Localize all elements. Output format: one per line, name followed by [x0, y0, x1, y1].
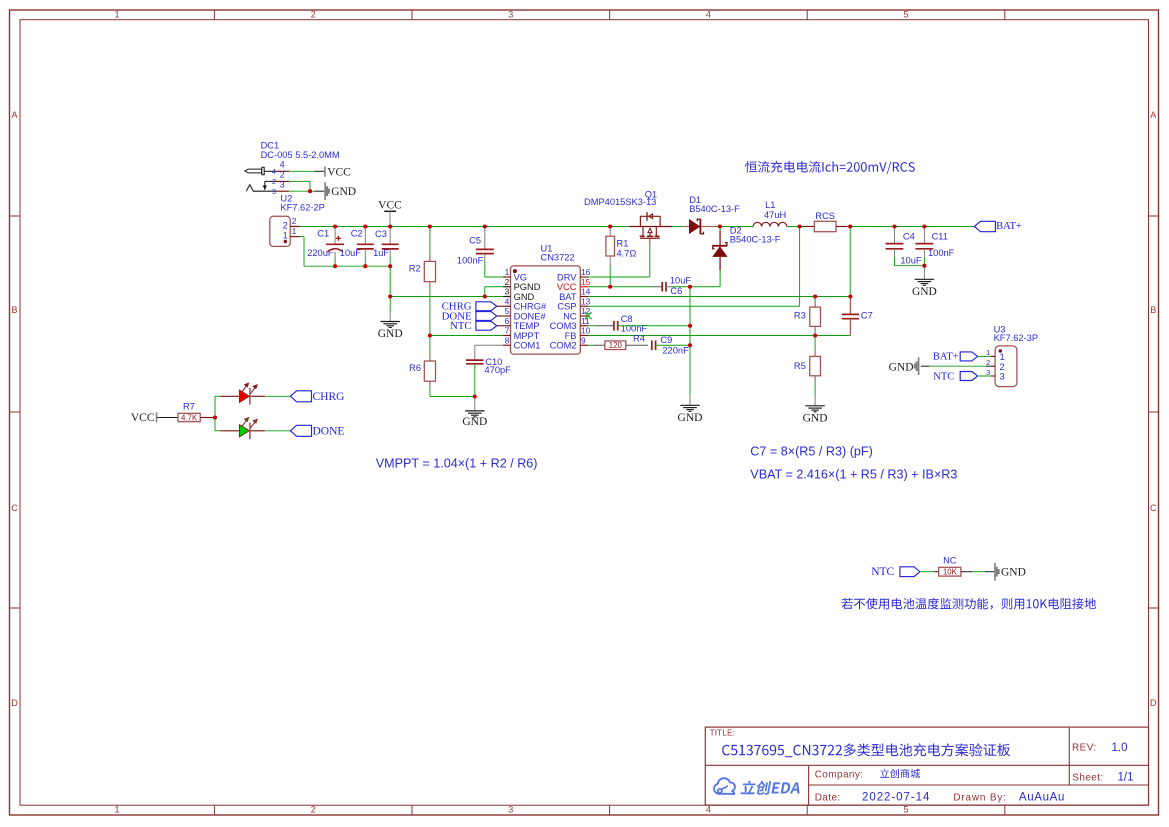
ground flag GND at NTC: [994, 563, 996, 581]
U2 pin 1 stub: [290, 236, 300, 238]
junction BAT-R3-C7: [848, 294, 852, 298]
svg-text:4: 4: [706, 9, 711, 19]
U1 pin 1 VG: [503, 276, 511, 278]
svg-text:VCC: VCC: [327, 166, 351, 178]
svg-text:5: 5: [903, 805, 908, 815]
svg-text:1: 1: [283, 231, 288, 241]
U1 pin 9 COM2: [580, 344, 588, 346]
junction VCC-C1: [333, 224, 337, 228]
junction L1-CSP: [798, 224, 802, 228]
svg-text:NTC: NTC: [933, 372, 954, 383]
svg-text:1: 1: [986, 348, 990, 357]
svg-text:2: 2: [272, 177, 276, 186]
svg-text:DC-005 5.5-2.0MM: DC-005 5.5-2.0MM: [261, 150, 340, 160]
connector U2 body: [270, 216, 290, 246]
wire U2 pin1 to caps bottom: [300, 236, 304, 238]
svg-text:DONE: DONE: [313, 426, 345, 438]
svg-text:3: 3: [280, 179, 285, 189]
svg-text:C9: C9: [660, 335, 672, 345]
capacitor C11: [923, 227, 925, 244]
svg-text:Drawn By:: Drawn By:: [953, 792, 1006, 803]
junction R7-LEDs: [213, 415, 217, 419]
svg-text:4.7Ω: 4.7Ω: [617, 249, 637, 259]
svg-text:C6: C6: [670, 286, 682, 296]
capacitor C1: [334, 227, 336, 245]
DC1 pin 3 stub: [276, 190, 290, 192]
svg-text:C11: C11: [932, 231, 948, 241]
svg-text:8: 8: [505, 335, 510, 345]
svg-text:4: 4: [505, 296, 510, 306]
svg-text:1/1: 1/1: [1118, 772, 1134, 784]
capacitor C7: [849, 297, 851, 315]
svg-text:R4: R4: [633, 334, 645, 344]
U1 pin 10 FB: [580, 335, 588, 337]
svg-text:220nF: 220nF: [662, 345, 689, 355]
wire VCC pin15 row: [588, 286, 652, 288]
svg-text:100nF: 100nF: [457, 255, 484, 265]
wire LED branch vertical: [214, 396, 216, 431]
U1 pin 11 COM3: [580, 325, 588, 327]
diode D1: [684, 226, 689, 228]
svg-text:VCC: VCC: [378, 200, 402, 212]
ground GND mid: [689, 395, 691, 405]
svg-text:GND: GND: [514, 292, 535, 302]
svg-text:GND: GND: [889, 361, 914, 373]
svg-text:7: 7: [505, 326, 510, 336]
svg-text:GND: GND: [378, 328, 403, 340]
wire LED2 to DONE flag: [251, 430, 265, 432]
wire GND vertical: [689, 287, 691, 395]
svg-text:VG: VG: [514, 272, 527, 282]
row ticks right: [1149, 215, 1159, 217]
U3 pin 1: [991, 355, 995, 357]
svg-text:1: 1: [114, 805, 119, 815]
resistor R3: [814, 297, 816, 303]
svg-text:2: 2: [280, 170, 285, 180]
capacitor C9: [651, 340, 653, 350]
capacitor C1 polarity +: [336, 237, 341, 239]
junction VCC-flag: [388, 224, 392, 228]
svg-text:3: 3: [508, 805, 513, 815]
svg-text:5: 5: [903, 9, 908, 19]
capacitor C5: [484, 227, 486, 250]
DC1 pin 4 stub: [276, 170, 290, 172]
svg-text:C7 = 8×(R5 / R3) (pF): C7 = 8×(R5 / R3) (pF): [750, 445, 872, 459]
svg-text:3: 3: [1000, 372, 1005, 383]
svg-text:GND: GND: [912, 286, 937, 298]
wire RCS to BAT+ flag: [850, 226, 974, 228]
connector DC1 jack symbol: [245, 169, 262, 173]
junction VCC-R2: [428, 224, 432, 228]
svg-text:10: 10: [581, 326, 591, 336]
svg-text:TEMP: TEMP: [514, 321, 540, 331]
svg-text:AuAuAu: AuAuAu: [1019, 791, 1065, 803]
svg-text:11: 11: [581, 316, 590, 326]
svg-text:COM2: COM2: [550, 341, 577, 351]
net flag BAT+ main: [974, 221, 995, 231]
power flag VCC at DC1: [324, 167, 326, 177]
U1 pin1 marker dot: [513, 269, 517, 273]
svg-text:CHRG#: CHRG#: [514, 302, 547, 312]
svg-text:CHRG: CHRG: [313, 391, 345, 403]
svg-text:BAT+: BAT+: [933, 352, 959, 363]
svg-text:COM3: COM3: [550, 321, 577, 331]
svg-text:6: 6: [505, 316, 510, 326]
wire D1 to L1: [720, 226, 753, 228]
svg-text:D: D: [11, 698, 18, 708]
svg-text:2: 2: [311, 9, 316, 19]
DC1 pin 2 stub: [276, 180, 290, 182]
svg-text:VBAT = 2.416×(1 + R5 / R3) + I: VBAT = 2.416×(1 + R5 / R3) + IB×R3: [750, 468, 957, 482]
svg-text:4: 4: [280, 160, 285, 170]
svg-text:GND: GND: [803, 412, 828, 424]
svg-text:NC: NC: [563, 311, 577, 321]
wire NTC flag to R: [920, 571, 934, 573]
resistor R5: [814, 336, 816, 352]
wire DC1 pin4 to VCC: [289, 170, 315, 172]
junction C8-GND: [688, 324, 692, 328]
U1 pin 4 CHRG#: [503, 305, 511, 307]
svg-text:C1: C1: [317, 229, 329, 239]
U1 pin12 no-connect X: [585, 312, 592, 319]
svg-text:C2: C2: [351, 229, 363, 239]
wire VCC to R7: [157, 417, 178, 419]
svg-text:NC: NC: [943, 556, 957, 566]
title block vline rev: [1068, 727, 1070, 785]
U3 pin1 marker dot: [999, 349, 1002, 352]
svg-text:47uH: 47uH: [764, 210, 786, 220]
logo EasyEDA text: [741, 781, 800, 795]
wire LED1 to CHRG flag: [251, 395, 265, 397]
capacitor C2: [364, 227, 366, 245]
svg-text:FB: FB: [565, 331, 577, 341]
capacitor C10: [475, 344, 503, 346]
svg-text:COM1: COM1: [514, 341, 541, 351]
svg-text:5: 5: [505, 306, 510, 316]
svg-text:1: 1: [505, 267, 510, 277]
svg-text:NTC: NTC: [450, 320, 472, 332]
svg-text:GND: GND: [678, 412, 703, 424]
svg-text:C: C: [11, 503, 18, 513]
svg-text:120: 120: [609, 341, 623, 350]
junction C4 top: [892, 224, 896, 228]
svg-text:CSP: CSP: [557, 302, 576, 312]
junction C10-R6-GND: [473, 394, 477, 398]
junction C3 bottom: [388, 264, 392, 268]
wire RCS right to BAT pin: [849, 227, 851, 297]
resistor NC 10K: [939, 567, 961, 576]
transistor Q1 symbol: [629, 226, 672, 228]
junction GND node: [388, 294, 392, 298]
svg-text:14: 14: [581, 287, 591, 297]
wire C4 to C11 bottom: [895, 265, 925, 267]
junction VCC-R1: [608, 224, 612, 228]
U1 pin 8 COM1: [503, 344, 511, 346]
wire L1 to RCS: [787, 226, 803, 228]
svg-text:R2: R2: [409, 264, 421, 274]
junction C11 top: [922, 224, 926, 228]
resistor RCS: [803, 226, 814, 228]
svg-text:Company:: Company:: [815, 770, 864, 781]
column ticks top: [213, 10, 215, 20]
title block vline logo: [808, 765, 810, 805]
net flag CHRG: [290, 391, 311, 402]
junction R2-R6-MPPT: [428, 333, 432, 337]
ground GND under caps: [389, 297, 391, 312]
junction R3 bottom FB: [813, 333, 817, 337]
svg-text:1: 1: [292, 227, 297, 236]
svg-text:1: 1: [114, 9, 119, 19]
svg-text:16: 16: [581, 267, 591, 277]
junction C9-GND: [688, 343, 692, 347]
svg-text:4: 4: [706, 805, 711, 815]
U1 pin 3 GND: [503, 296, 511, 298]
svg-text:9: 9: [581, 335, 586, 345]
svg-text:L1: L1: [765, 200, 775, 210]
svg-text:DRV: DRV: [557, 272, 577, 282]
svg-text:DMP4015SK3-13: DMP4015SK3-13: [584, 197, 656, 207]
resistor R2: [429, 227, 431, 257]
svg-text:GND: GND: [331, 186, 356, 198]
LED LED2 green DONE: [239, 425, 249, 437]
svg-text:10K: 10K: [943, 568, 958, 577]
U1 pin 5 DONE#: [503, 315, 511, 317]
svg-text:BAT+: BAT+: [996, 221, 1022, 232]
junction C11 bottom: [922, 264, 926, 268]
svg-text:DONE#: DONE#: [514, 311, 547, 321]
wire CSP pin13 row: [588, 305, 800, 307]
svg-text:4.7K: 4.7K: [181, 413, 198, 422]
svg-text:VMPPT = 1.04×(1 + R2 / R6): VMPPT = 1.04×(1 + R2 / R6): [376, 457, 538, 471]
svg-text:VCC: VCC: [557, 282, 577, 292]
junction R1-VCCpin: [608, 285, 612, 289]
svg-text:PGND: PGND: [514, 282, 541, 292]
junction C2 bottom: [363, 264, 367, 268]
svg-text:2: 2: [311, 805, 316, 815]
ground GND under C10: [474, 397, 476, 411]
svg-text:B540C-13-F: B540C-13-F: [730, 235, 781, 245]
wire caps bottom to GND node: [389, 266, 391, 296]
svg-text:R6: R6: [409, 363, 421, 373]
capacitor C4: [894, 227, 896, 244]
junction VCC-C2: [363, 224, 367, 228]
title block company name: [880, 769, 920, 778]
svg-text:D: D: [1150, 698, 1157, 708]
ground GND under C11: [923, 266, 925, 280]
wire BAT pin14 row: [588, 296, 850, 298]
note NTC chinese: [842, 598, 1097, 610]
ground GND under R5: [814, 396, 816, 406]
svg-text:Date:: Date:: [815, 792, 841, 803]
logo EasyEDA cloud: [714, 778, 735, 794]
junction PGND tie: [483, 294, 487, 298]
wire R to GND flag: [961, 571, 972, 573]
svg-text:2022-07-14: 2022-07-14: [862, 791, 930, 803]
U1 pin 7 MPPT: [503, 335, 511, 337]
svg-text:B: B: [11, 305, 17, 315]
resistor R1: [609, 227, 611, 237]
svg-text:C7: C7: [861, 311, 873, 321]
svg-text:GND: GND: [1001, 567, 1026, 579]
capacitor C3: [389, 227, 391, 245]
svg-text:Sheet:: Sheet:: [1072, 772, 1103, 783]
wire MPPT row: [430, 335, 503, 337]
svg-text:VCC: VCC: [131, 412, 155, 424]
junction VCC-C5: [483, 224, 487, 228]
svg-text:13: 13: [581, 296, 591, 306]
wire Q1 drain to D1: [672, 226, 684, 228]
U1 pin 12 NC: [580, 315, 588, 317]
wire DRV to Q1 gate: [588, 276, 650, 278]
svg-text:470pF: 470pF: [485, 365, 512, 375]
junction R3 top: [813, 294, 817, 298]
resistor R4: [588, 344, 594, 346]
title block line under company row: [809, 784, 1149, 786]
svg-text:C4: C4: [903, 231, 915, 241]
capacitor C6: [661, 282, 663, 292]
svg-text:C5: C5: [469, 236, 481, 246]
svg-text:KF7.62-2P: KF7.62-2P: [280, 203, 324, 213]
junction C1 bottom: [333, 264, 337, 268]
U3 pin 3: [991, 375, 995, 377]
svg-text:TITLE:: TITLE:: [710, 727, 736, 737]
resistor R7: [178, 413, 200, 421]
resistor R6: [429, 336, 431, 356]
wire FB pin10 row: [588, 335, 850, 337]
wire GND node to U1 pin3: [390, 296, 503, 298]
svg-text:10uF: 10uF: [670, 275, 692, 285]
junction D1-D2-L1: [718, 224, 722, 228]
svg-text:A: A: [1150, 110, 1156, 120]
svg-text:3: 3: [508, 9, 513, 19]
svg-text:2: 2: [283, 220, 288, 230]
diode D2: [719, 227, 721, 232]
wire U1 pin2 PGND down: [485, 286, 503, 288]
svg-text:MPPT: MPPT: [514, 331, 540, 341]
U3 pin 2: [991, 365, 995, 367]
svg-text:15: 15: [581, 277, 591, 287]
svg-text:R5: R5: [794, 361, 806, 371]
IC U1 body: [511, 266, 581, 354]
svg-text:REV:: REV:: [1072, 743, 1097, 754]
junction DC1 pins 2-3: [308, 189, 312, 193]
svg-text:10uF: 10uF: [900, 255, 922, 265]
svg-text:R1: R1: [617, 239, 629, 249]
svg-text:B: B: [1150, 305, 1156, 315]
U1 pin 16 DRV: [580, 276, 588, 278]
svg-text:C3: C3: [375, 229, 387, 239]
row ticks left: [10, 215, 21, 217]
U1 pin 14 BAT: [580, 296, 588, 298]
svg-text:3: 3: [986, 368, 990, 377]
svg-text:GND: GND: [462, 416, 487, 428]
svg-text:2: 2: [505, 277, 510, 287]
svg-text:3: 3: [505, 287, 510, 297]
svg-text:B540C-13-F: B540C-13-F: [689, 204, 740, 214]
svg-text:R7: R7: [183, 402, 195, 412]
svg-text:NTC: NTC: [871, 566, 894, 578]
wire to LED1: [215, 395, 220, 397]
wire DC1 pin2 down: [289, 180, 310, 182]
svg-text:RCS: RCS: [815, 211, 835, 221]
U2 pin 2 stub: [290, 225, 300, 227]
junction C6-D2-GND: [688, 285, 692, 289]
title block line under title row: [705, 764, 1148, 766]
svg-text:KF7.62-3P: KF7.62-3P: [994, 333, 1038, 343]
svg-text:BAT: BAT: [559, 292, 577, 302]
svg-text:DC1: DC1: [261, 140, 280, 150]
svg-text:A: A: [11, 110, 17, 120]
wire to LED2: [215, 430, 220, 432]
title block title text: [722, 743, 1010, 757]
svg-text:C: C: [1150, 503, 1157, 513]
net flag DONE: [290, 425, 311, 436]
svg-text:3: 3: [272, 187, 276, 196]
inductor L1 coil: [753, 222, 787, 226]
ground flag GND at DC1: [324, 182, 326, 200]
U1 pin 6 TEMP: [503, 325, 511, 327]
capacitor C8: [588, 325, 595, 327]
title block box: [705, 727, 1148, 805]
svg-text:R3: R3: [794, 311, 806, 321]
wire VCC rail: [300, 226, 629, 228]
svg-text:2: 2: [986, 358, 990, 367]
U2 pin1 marker dot: [284, 240, 287, 243]
svg-text:4: 4: [272, 167, 276, 176]
svg-text:100nF: 100nF: [621, 323, 648, 333]
U1 pin 15 VCC: [580, 286, 588, 288]
note constant current formula: [745, 161, 915, 174]
U1 pin 2 PGND: [503, 286, 511, 288]
LED LED1 red CHRG: [239, 390, 249, 402]
svg-text:1.0: 1.0: [1112, 742, 1128, 754]
column ticks bottom: [213, 805, 215, 815]
wire R6 bottom to C10 bottom: [430, 396, 475, 398]
svg-text:CN3722: CN3722: [541, 253, 575, 263]
connector U3 body: [995, 346, 1017, 387]
junction RCS-BAT: [848, 224, 852, 228]
U1 pin 13 CSP: [580, 305, 588, 307]
wire DC1 pin3 to GND: [289, 190, 315, 192]
svg-text:2: 2: [292, 217, 297, 226]
